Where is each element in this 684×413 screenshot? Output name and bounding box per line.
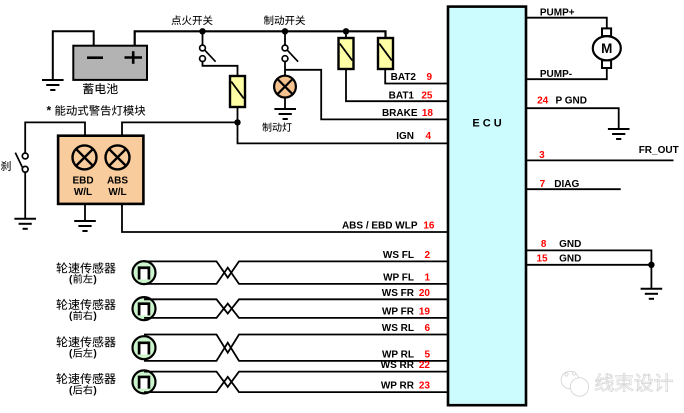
- ground ECU GND: [641, 289, 663, 299]
- label 轮速传感器 (FL): [56, 262, 67, 273]
- wire fuse F1 to node IGN: [237, 107, 239, 122]
- svg-text:20: 20: [419, 288, 431, 299]
- ground warning lamp module: [74, 221, 96, 231]
- svg-text:19: 19: [419, 307, 431, 318]
- svg-text:5: 5: [424, 350, 430, 361]
- svg-text:WS FL: WS FL: [383, 250, 414, 261]
- svg-text:IGN: IGN: [396, 131, 414, 142]
- svg-text:9: 9: [426, 72, 432, 83]
- svg-text:15: 15: [536, 253, 548, 264]
- svg-text:23: 23: [419, 381, 431, 392]
- wire WP RL twisted pair B: [144, 343, 449, 361]
- ground parking brake switch: [14, 219, 36, 229]
- svg-text:WS FR: WS FR: [382, 288, 415, 299]
- wire WS FL twisted pair A: [144, 261, 449, 277]
- brake switch S2: [282, 45, 298, 62]
- wire ignition switch to fuse F1: [203, 62, 238, 77]
- label 制动开关 brake switch: [264, 15, 273, 25]
- wheel speed sensor RL: [133, 336, 156, 359]
- wire BAT2 to ECU pin 9: [385, 69, 448, 84]
- wire bus to fuse F2: [345, 31, 347, 38]
- wire GND pin 8: [526, 250, 651, 264]
- svg-text:BRAKE: BRAKE: [382, 108, 418, 119]
- svg-text:GND: GND: [559, 253, 581, 264]
- svg-text:BAT1: BAT1: [389, 90, 415, 101]
- svg-text:6: 6: [424, 323, 430, 334]
- ground P GND: [608, 129, 630, 139]
- svg-text:24: 24: [537, 96, 549, 107]
- wire GND to ground: [650, 265, 652, 289]
- lamp 制动灯 brake light: [274, 76, 296, 98]
- wire to brake switch: [284, 31, 286, 45]
- wire WS RL twisted pair A: [144, 335, 449, 353]
- svg-text:M: M: [601, 41, 612, 56]
- wire parking switch to ground: [24, 172, 26, 218]
- svg-text:2: 2: [424, 250, 430, 261]
- wire battery positive supply bus: [135, 31, 386, 46]
- wire module to parking brake switch: [25, 122, 85, 153]
- wire brake lamp to ground: [284, 98, 286, 110]
- svg-text:7: 7: [540, 179, 546, 190]
- svg-text:): ): [93, 275, 96, 286]
- wire BAT1 to ECU pin 25: [346, 69, 449, 101]
- svg-text:3: 3: [539, 150, 545, 161]
- svg-text:WS RR: WS RR: [381, 360, 415, 371]
- fuse F1 ignition: [230, 76, 245, 107]
- label 轮速传感器 (FR): [56, 299, 67, 310]
- label 轮速传感器 (RL): [56, 336, 67, 347]
- wire GND pin 15: [526, 264, 651, 266]
- svg-text:(: (: [69, 349, 73, 360]
- wire to ignition switch: [202, 31, 204, 45]
- svg-text:W/L: W/L: [108, 187, 126, 198]
- wire battery negative to ground: [53, 31, 94, 80]
- svg-text:FR_OUT: FR_OUT: [639, 145, 679, 156]
- battery B1 蓄电池: [73, 46, 147, 80]
- svg-text:BAT2: BAT2: [391, 72, 417, 83]
- label 点火开关 ignition switch: [171, 15, 181, 25]
- svg-text:(: (: [69, 311, 73, 322]
- node brake switch tap: [282, 28, 288, 34]
- wire brake switch to brake lamp: [284, 62, 286, 77]
- node GND junction: [648, 262, 654, 268]
- wire FR_OUT: [526, 159, 674, 161]
- svg-text:P GND: P GND: [556, 96, 588, 107]
- svg-text:GND: GND: [559, 239, 581, 250]
- fuse F3 BAT2: [378, 38, 393, 69]
- ground battery: [42, 80, 64, 90]
- wire IGN to ECU pin 4: [238, 122, 449, 143]
- svg-text:): ): [93, 349, 96, 360]
- svg-text:*: *: [47, 104, 52, 118]
- wire module lamp to ground: [84, 204, 86, 221]
- svg-text:4: 4: [425, 131, 431, 142]
- lamp EBD warning: [73, 145, 97, 169]
- svg-text:): ): [93, 386, 96, 397]
- svg-text:1: 1: [424, 273, 430, 284]
- node fuse F2 tap: [343, 28, 349, 34]
- wire IGN node to warning lamp module: [122, 122, 238, 136]
- fuse F2 BAT1: [339, 38, 354, 69]
- svg-text:18: 18: [422, 108, 434, 119]
- wire WP RR twisted pair B: [144, 377, 449, 392]
- ECU U1 box: [448, 7, 526, 406]
- wheel speed sensor FL: [133, 261, 156, 284]
- wire WP FL twisted pair B: [144, 268, 449, 284]
- svg-text:WP FR: WP FR: [382, 307, 415, 318]
- wire WS FR twisted pair A: [144, 299, 449, 313]
- svg-text:W/L: W/L: [74, 187, 92, 198]
- label 轮速传感器 (RR): [56, 373, 67, 384]
- svg-text:(: (: [69, 386, 73, 397]
- wire PUMP- to motor: [526, 68, 607, 79]
- svg-text:WP RL: WP RL: [382, 350, 414, 361]
- wire WP FR twisted pair B: [144, 304, 449, 318]
- warning lamp module box: [58, 136, 143, 204]
- wire ABS/EBD WLP to ECU pin 16: [122, 204, 449, 232]
- node IGN junction: [234, 119, 240, 125]
- svg-text:): ): [93, 311, 96, 322]
- node ignition switch tap: [199, 28, 205, 34]
- svg-text:16: 16: [423, 220, 435, 231]
- label 蓄电池 battery: [83, 83, 94, 94]
- watermark logo circles: [561, 371, 589, 396]
- watermark 线束设计: [595, 373, 613, 391]
- parking brake switch S3: [15, 153, 28, 173]
- ground brake lamp: [274, 109, 296, 119]
- wheel speed sensor RR: [133, 370, 156, 393]
- svg-text:(: (: [69, 275, 73, 286]
- pump motor M1: [593, 28, 621, 68]
- wire P GND to ground: [526, 108, 619, 129]
- svg-text:8: 8: [541, 239, 547, 250]
- lamp ABS warning: [106, 145, 130, 169]
- wheel speed sensor FR: [133, 297, 156, 320]
- svg-text:WS RL: WS RL: [382, 323, 414, 334]
- ignition switch S1: [200, 45, 216, 62]
- wire BRAKE to ECU pin 18: [285, 70, 449, 120]
- svg-text:WP FL: WP FL: [383, 273, 414, 284]
- svg-text:22: 22: [419, 360, 431, 371]
- svg-text:PUMP+: PUMP+: [540, 7, 575, 18]
- wire PUMP+ to motor: [526, 18, 607, 29]
- svg-text:25: 25: [421, 90, 433, 101]
- wire WS RR twisted pair A: [144, 372, 449, 387]
- svg-text:WP RR: WP RR: [381, 381, 415, 392]
- svg-text:ABS / EBD WLP: ABS / EBD WLP: [342, 220, 418, 231]
- label 制动灯: [262, 123, 271, 132]
- svg-text:E C U: E C U: [472, 118, 501, 130]
- wire DIAG: [526, 188, 621, 190]
- svg-text:ABS: ABS: [107, 175, 128, 186]
- svg-text:DIAG: DIAG: [554, 179, 579, 190]
- svg-text:EBD: EBD: [72, 175, 93, 186]
